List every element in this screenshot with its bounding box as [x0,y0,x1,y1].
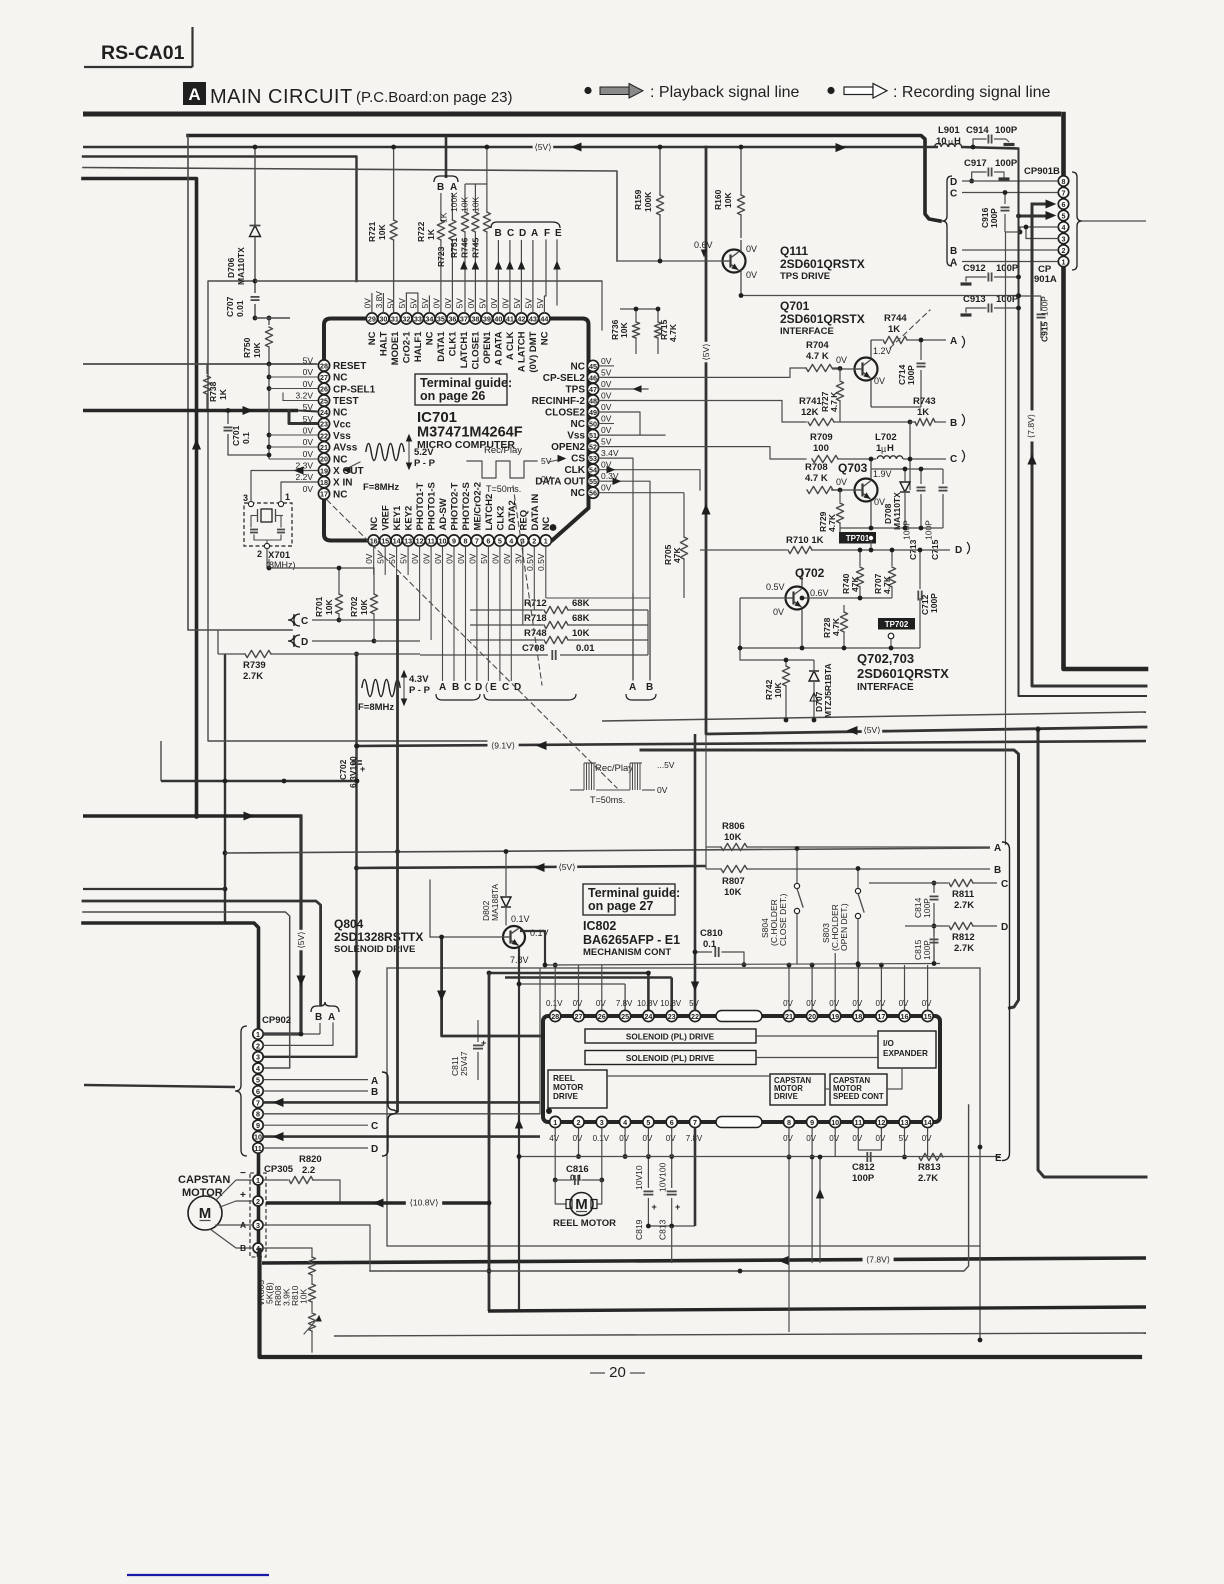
svg-text:+: + [481,1038,486,1048]
svg-text:CLOSE2: CLOSE2 [545,408,585,419]
svg-text:4.7K: 4.7K [827,513,837,532]
svg-text:8: 8 [787,1118,791,1127]
svg-text:C912: C912 [963,263,986,274]
svg-text:0.1: 0.1 [241,432,251,444]
wire right border bus [1064,114,1147,669]
svg-text:OPEN2: OPEN2 [551,442,585,453]
svg-text:A DATA: A DATA [493,331,504,365]
wire to Vcc pin23 [289,411,318,424]
svg-text:7: 7 [1062,188,1066,197]
svg-text:Q702,703: Q702,703 [857,651,914,666]
terminal guide box 26 [415,374,507,405]
svg-text:Q703: Q703 [838,461,868,475]
svg-text:C708: C708 [522,643,545,654]
svg-text:47: 47 [589,385,597,394]
transistor Q703 [855,479,878,502]
svg-text:0V: 0V [601,402,612,412]
svg-text:R708: R708 [805,462,828,473]
svg-text:0V: 0V [836,355,847,365]
svg-text:10K: 10K [773,682,783,698]
svg-text:10K: 10K [723,192,733,208]
resistor R813 [919,1153,943,1160]
svg-text:9: 9 [256,1121,260,1130]
wires IC802 bottom drops [624,1128,626,1157]
svg-text:...5V: ...5V [657,760,675,770]
svg-text:0V: 0V [433,553,443,564]
svg-text:100P: 100P [924,520,934,540]
svg-text:2.3V: 2.3V [296,460,314,470]
terminal guide box 27 [583,884,675,915]
svg-text:44: 44 [540,314,548,323]
svg-text:AD-SW: AD-SW [438,498,449,530]
svg-text:PHOTO1-S: PHOTO1-S [427,482,438,530]
svg-text:Q111: Q111 [780,244,808,258]
wire X IN to crystal [281,482,318,502]
svg-text:R750: R750 [242,337,252,358]
wire rail y750 to x1018 [641,750,1019,1008]
wire rail y912 to pin4 [83,912,290,1068]
svg-text:SOLENOID DRIVE: SOLENOID DRIVE [334,944,415,955]
svg-text:R160: R160 [713,189,723,210]
svg-text:100P: 100P [995,125,1018,136]
svg-text:0V: 0V [596,999,606,1008]
svg-text:R744: R744 [884,313,907,324]
svg-text:TPS: TPS [566,385,586,396]
svg-text:L702: L702 [875,432,897,443]
svg-text:REQ: REQ [518,510,529,531]
svg-text:5V: 5V [479,553,489,564]
arrow on 7.8V rail [779,1257,788,1265]
svg-text:2.7K: 2.7K [243,671,263,682]
svg-text:A: A [629,682,636,693]
svg-text:6: 6 [486,536,490,545]
resistor R705 [683,493,685,537]
svg-text:on page 27: on page 27 [588,899,653,913]
svg-text:D706: D706 [226,257,236,278]
svg-text:50: 50 [589,419,597,428]
svg-text:7: 7 [256,1098,260,1107]
capacitor C914 [973,139,986,147]
wire pin45 stub [599,365,614,367]
svg-text:9: 9 [452,536,456,545]
svg-text:0V: 0V [783,1134,793,1143]
wire x706 to R806 R807 [705,734,707,869]
svg-text:4.7K: 4.7K [882,575,892,594]
svg-text:0V: 0V [573,1134,583,1143]
svg-text:0V: 0V [852,999,862,1008]
svg-text:MODE1: MODE1 [390,331,401,366]
IC802 internal wires [756,1035,878,1037]
svg-text:4.3V: 4.3V [409,674,429,685]
arrow up 7.8V [1028,455,1036,464]
svg-text:D: D [475,682,482,693]
svg-text:R738: R738 [208,381,218,402]
svg-text:NC: NC [333,489,347,500]
svg-text:1: 1 [256,1030,260,1039]
svg-text:5V: 5V [601,367,612,377]
wire x648 tie [647,610,649,655]
svg-text:10K: 10K [724,832,742,843]
svg-text:29: 29 [368,314,376,323]
svg-text:R741: R741 [799,396,822,407]
svg-text:0V: 0V [601,356,612,366]
svg-text:0V: 0V [619,1134,629,1143]
svg-text:0V: 0V [541,474,552,484]
wire 7.8V vertical [1032,204,1146,686]
wire rail y923 CP902 spine [83,923,259,1255]
svg-text:4V: 4V [549,1134,559,1143]
svg-text:1.2V: 1.2V [873,346,892,356]
svg-text:100P: 100P [996,263,1019,274]
svg-text:6.3V100: 6.3V100 [348,756,358,788]
svg-text:5V: 5V [523,298,533,309]
svg-text:E: E [995,1153,1002,1164]
legend playback signal line [584,87,591,94]
wire rail y853 [225,848,990,853]
wire CP902 pin10 [263,1135,540,1138]
svg-text:100: 100 [813,443,829,454]
svg-text:I/O: I/O [883,1039,895,1048]
resistor R729 [839,490,841,502]
svg-text:0V: 0V [876,999,886,1008]
svg-text:TP701: TP701 [846,534,870,543]
svg-text:D: D [955,545,962,556]
svg-text:Q804: Q804 [334,917,364,931]
svg-text:0.1V: 0.1V [593,1134,610,1143]
svg-text:6: 6 [670,1118,674,1127]
svg-text:CS: CS [571,454,585,465]
svg-text:R751: R751 [449,237,459,258]
svg-text:R739: R739 [243,660,266,671]
svg-text:AVss: AVss [333,443,358,454]
svg-text:⟨5V⟩: ⟨5V⟩ [296,931,306,948]
svg-text:A: A [994,843,1001,854]
svg-text:TEST: TEST [333,396,359,407]
resistor R745 [486,184,488,212]
svg-text:: Recording signal line: : Recording signal line [893,84,1051,101]
svg-text:0V: 0V [874,376,885,386]
svg-text:B: B [994,865,1001,876]
5V rotated label on x706 [701,342,712,363]
resistor R746 [474,184,476,212]
svg-text:0V: 0V [431,298,441,309]
resistor R701 [338,568,340,594]
arrow up on left vertical [193,440,201,449]
capstan speed box [830,1074,887,1105]
svg-text:DRIVE: DRIVE [774,1092,798,1101]
svg-text:C: C [507,228,514,239]
resistor R739 [218,653,245,655]
svg-text:2: 2 [256,1041,260,1050]
svg-text:R743: R743 [913,396,936,407]
svg-text:0V: 0V [601,391,612,401]
svg-text:35: 35 [437,314,445,323]
svg-text:CP-SEL1: CP-SEL1 [333,384,376,395]
svg-text:2.2: 2.2 [302,1165,315,1176]
svg-text:H: H [887,443,894,454]
svg-text:KEY2: KEY2 [404,506,415,531]
svg-text:Q701: Q701 [780,299,810,313]
svg-text:C813: C813 [658,1219,668,1240]
svg-text:47K: 47K [672,547,682,563]
wire 5V branch vertical x297 [263,816,301,1034]
svg-text:10K: 10K [471,197,481,212]
svg-text:Q702: Q702 [795,566,825,580]
svg-text:A CLK: A CLK [505,331,516,360]
svg-text:68K: 68K [572,613,590,624]
wire pin52 OPEN2 [599,447,806,459]
dashed leader REQ [513,486,542,685]
svg-text:21: 21 [320,443,328,452]
svg-text:P - P: P - P [409,685,431,696]
arrow y734 [848,727,857,735]
svg-text:0V: 0V [490,553,500,564]
diode D708 [904,469,906,481]
svg-text:B: B [646,682,653,693]
svg-text:0V: 0V [456,553,466,564]
svg-text:T=50ms.: T=50ms. [590,795,625,805]
svg-text:R712: R712 [524,598,547,609]
svg-text:IC802: IC802 [583,919,616,933]
svg-text:A: A [950,258,957,269]
svg-text:0V: 0V [666,1134,676,1143]
svg-text:19: 19 [320,466,328,475]
svg-text:MA110TX: MA110TX [892,492,902,530]
svg-text:R701: R701 [314,596,324,617]
svg-text:LATCH1: LATCH1 [459,331,470,368]
svg-text:CP305: CP305 [264,1164,294,1175]
svg-text:MECHANISM CONT: MECHANISM CONT [583,947,671,958]
svg-text:4: 4 [623,1118,627,1127]
test point TP701 [839,532,876,544]
wire pin56 stub [599,492,684,494]
svg-text:24: 24 [320,408,328,417]
svg-text:IC701: IC701 [417,409,457,426]
svg-text:NC: NC [333,408,347,419]
svg-text:LATCH2: LATCH2 [484,494,495,531]
svg-text:CLOSE1: CLOSE1 [470,331,481,370]
svg-text:L901: L901 [938,125,960,136]
svg-text:SOLENOID (PL) DRIVE: SOLENOID (PL) DRIVE [626,1054,715,1063]
wires pins 32-34 tie [405,293,407,313]
svg-text:F=8MHz: F=8MHz [363,482,399,493]
svg-text:48: 48 [589,396,597,405]
svg-text:: Playback signal line: : Playback signal line [650,84,800,101]
svg-text:1: 1 [553,1118,557,1127]
arrow on 5V rail right [836,144,845,152]
wires F E [544,240,546,313]
svg-text:6: 6 [256,1087,260,1096]
svg-text:CP901B: CP901B [1024,166,1060,177]
IC701 pin1 dot [550,524,557,531]
svg-text:NC: NC [571,419,585,430]
svg-text:10K: 10K [299,1289,309,1304]
wire 10.8V rail [266,1201,489,1204]
wire RESET rail [83,363,318,365]
svg-text:4.7 K: 4.7 K [806,351,829,362]
svg-text:1: 1 [285,492,290,502]
transistor Q804 [503,926,525,948]
svg-text:SOLENOID (PL) DRIVE: SOLENOID (PL) DRIVE [626,1033,715,1042]
wire CP305 pin3 A [263,1225,370,1271]
svg-text:10: 10 [254,1133,262,1142]
svg-text:25: 25 [320,396,328,405]
wire rail2 to 9.1V feed [83,157,357,282]
svg-text:C: C [1001,879,1008,890]
svg-text:0V: 0V [922,999,932,1008]
svg-text:INTERFACE: INTERFACE [780,326,834,337]
svg-text:2.2V: 2.2V [296,472,314,482]
IC802 top pin wires [554,965,556,1010]
svg-text:2SD1328RSTTX: 2SD1328RSTTX [334,930,423,944]
svg-text:10: 10 [936,136,947,147]
svg-text:D: D [1001,922,1008,933]
dashed leader to rec/play2 [327,500,617,788]
svg-text:Vss: Vss [567,431,585,442]
svg-text:3V: 3V [513,553,523,564]
svg-text:1K: 1K [888,324,900,335]
wire enclosure IC802 box [387,968,980,1246]
svg-text:C810: C810 [700,928,723,939]
svg-text:26: 26 [320,385,328,394]
wire X OUT to crystal [251,471,318,502]
svg-text:4.7K: 4.7K [668,323,678,342]
svg-text:NC: NC [539,331,550,345]
svg-text:0V: 0V [303,449,314,459]
wire pin55 DATA OUT [599,481,650,680]
svg-text:0V: 0V [362,298,372,309]
svg-text:M: M [575,1196,588,1213]
svg-text:5V: 5V [376,553,386,564]
wire pin47 TPS [599,388,648,390]
wire CP902 pin8 [263,1113,540,1115]
svg-text:X IN: X IN [333,478,352,489]
svg-text:0V: 0V [876,1134,886,1143]
CP901 DCBA brace [942,176,952,266]
svg-text:18: 18 [320,478,328,487]
wire TEST pin25 [283,400,318,402]
wire pin50 stub [599,423,614,425]
svg-text:0V: 0V [443,298,453,309]
svg-text:RS-CA01: RS-CA01 [101,42,185,64]
svg-text:1K: 1K [218,388,228,400]
svg-text:PHOTO1-T: PHOTO1-T [415,482,426,530]
capacitor C812 [866,1152,868,1162]
svg-text:MA188TA: MA188TA [490,884,500,921]
svg-text:5V: 5V [541,456,552,466]
svg-text:5: 5 [1062,211,1066,220]
svg-text:NC: NC [333,373,347,384]
svg-text:33: 33 [414,314,422,323]
svg-text:100P: 100P [906,365,916,385]
capacitor C819 [647,1157,649,1189]
resistor R806 [706,846,721,848]
svg-text:ME/CrO2-2: ME/CrO2-2 [472,482,483,531]
wire rail4 thick left vertical [83,179,197,817]
svg-text:1K: 1K [426,228,436,240]
svg-text:12: 12 [416,536,424,545]
svg-text:EXPANDER: EXPANDER [883,1049,928,1058]
svg-text:2SD601QRSTX: 2SD601QRSTX [857,666,949,681]
svg-text:A: A [439,682,446,693]
5V label on top rail [533,142,554,153]
capacitor C815 [933,926,935,936]
wire R751-R745 to 5V [465,183,487,185]
wire bottom thin y1271 [370,1105,969,1271]
svg-text:R807: R807 [722,876,745,887]
svg-text:100P: 100P [902,520,912,540]
switch S804 [794,883,799,888]
svg-text:B: B [371,1087,378,1098]
svg-text:0V: 0V [746,244,757,254]
svg-text:CP902: CP902 [262,1015,291,1026]
svg-text:2.7K: 2.7K [954,943,974,954]
svg-text:MOTOR: MOTOR [553,1083,583,1092]
wire pin51 [599,434,665,436]
svg-text:0V: 0V [445,553,455,564]
svg-text:0V: 0V [601,414,612,424]
9.1V label [488,740,519,751]
resistor R740 [859,550,861,566]
svg-text:C: C [371,1121,378,1132]
wire emitter rail y295 [741,295,1019,297]
svg-text:CrO2-1: CrO2-1 [401,331,412,363]
wire pin48 [599,401,806,423]
svg-text:2: 2 [256,1197,260,1206]
svg-text:30: 30 [379,314,387,323]
svg-text:⟨5V⟩: ⟨5V⟩ [558,862,575,872]
svg-text:MA110TX: MA110TX [236,247,246,285]
svg-text:10K: 10K [572,628,590,639]
svg-text:(0V) DMT: (0V) DMT [528,331,539,372]
zener D707 [813,660,815,670]
bottom border [260,1250,1141,1357]
svg-text:A: A [240,1220,246,1230]
arrow on y816 rail [244,812,253,820]
svg-text:4.7 K: 4.7 K [829,391,839,412]
svg-text:3: 3 [1062,234,1066,243]
svg-text:MAIN CIRCUIT: MAIN CIRCUIT [210,86,353,108]
svg-text:5V: 5V [408,298,418,309]
svg-text:45: 45 [589,362,597,371]
resistor R721 [393,147,395,220]
svg-text:4: 4 [256,1064,260,1073]
svg-text:47K: 47K [850,576,860,592]
sine wave 4.3V [362,680,400,697]
svg-text:1: 1 [256,1176,260,1185]
reel motor [555,1180,566,1204]
svg-text:12: 12 [877,1118,885,1127]
svg-text:0V: 0V [303,379,314,389]
wire x910 col [909,422,911,490]
svg-text:5V: 5V [303,414,314,424]
resistor R710 [700,549,787,551]
svg-text:VREF: VREF [381,505,392,531]
resistor R723 on net A [451,193,453,220]
svg-text:27: 27 [575,1012,583,1021]
svg-text:7.8V: 7.8V [616,999,633,1008]
resistor R160 [740,147,742,195]
svg-text:+: + [360,764,365,774]
wire crystal gnd [267,549,374,569]
svg-text:µ: µ [881,444,886,454]
svg-text:0V: 0V [303,484,314,494]
svg-text:0.1V: 0.1V [546,999,563,1008]
svg-text:A: A [371,1076,378,1087]
wire 5V top rail [83,146,938,149]
wire ABCD bracket feed [396,575,399,1112]
svg-text:5V: 5V [899,1134,909,1143]
